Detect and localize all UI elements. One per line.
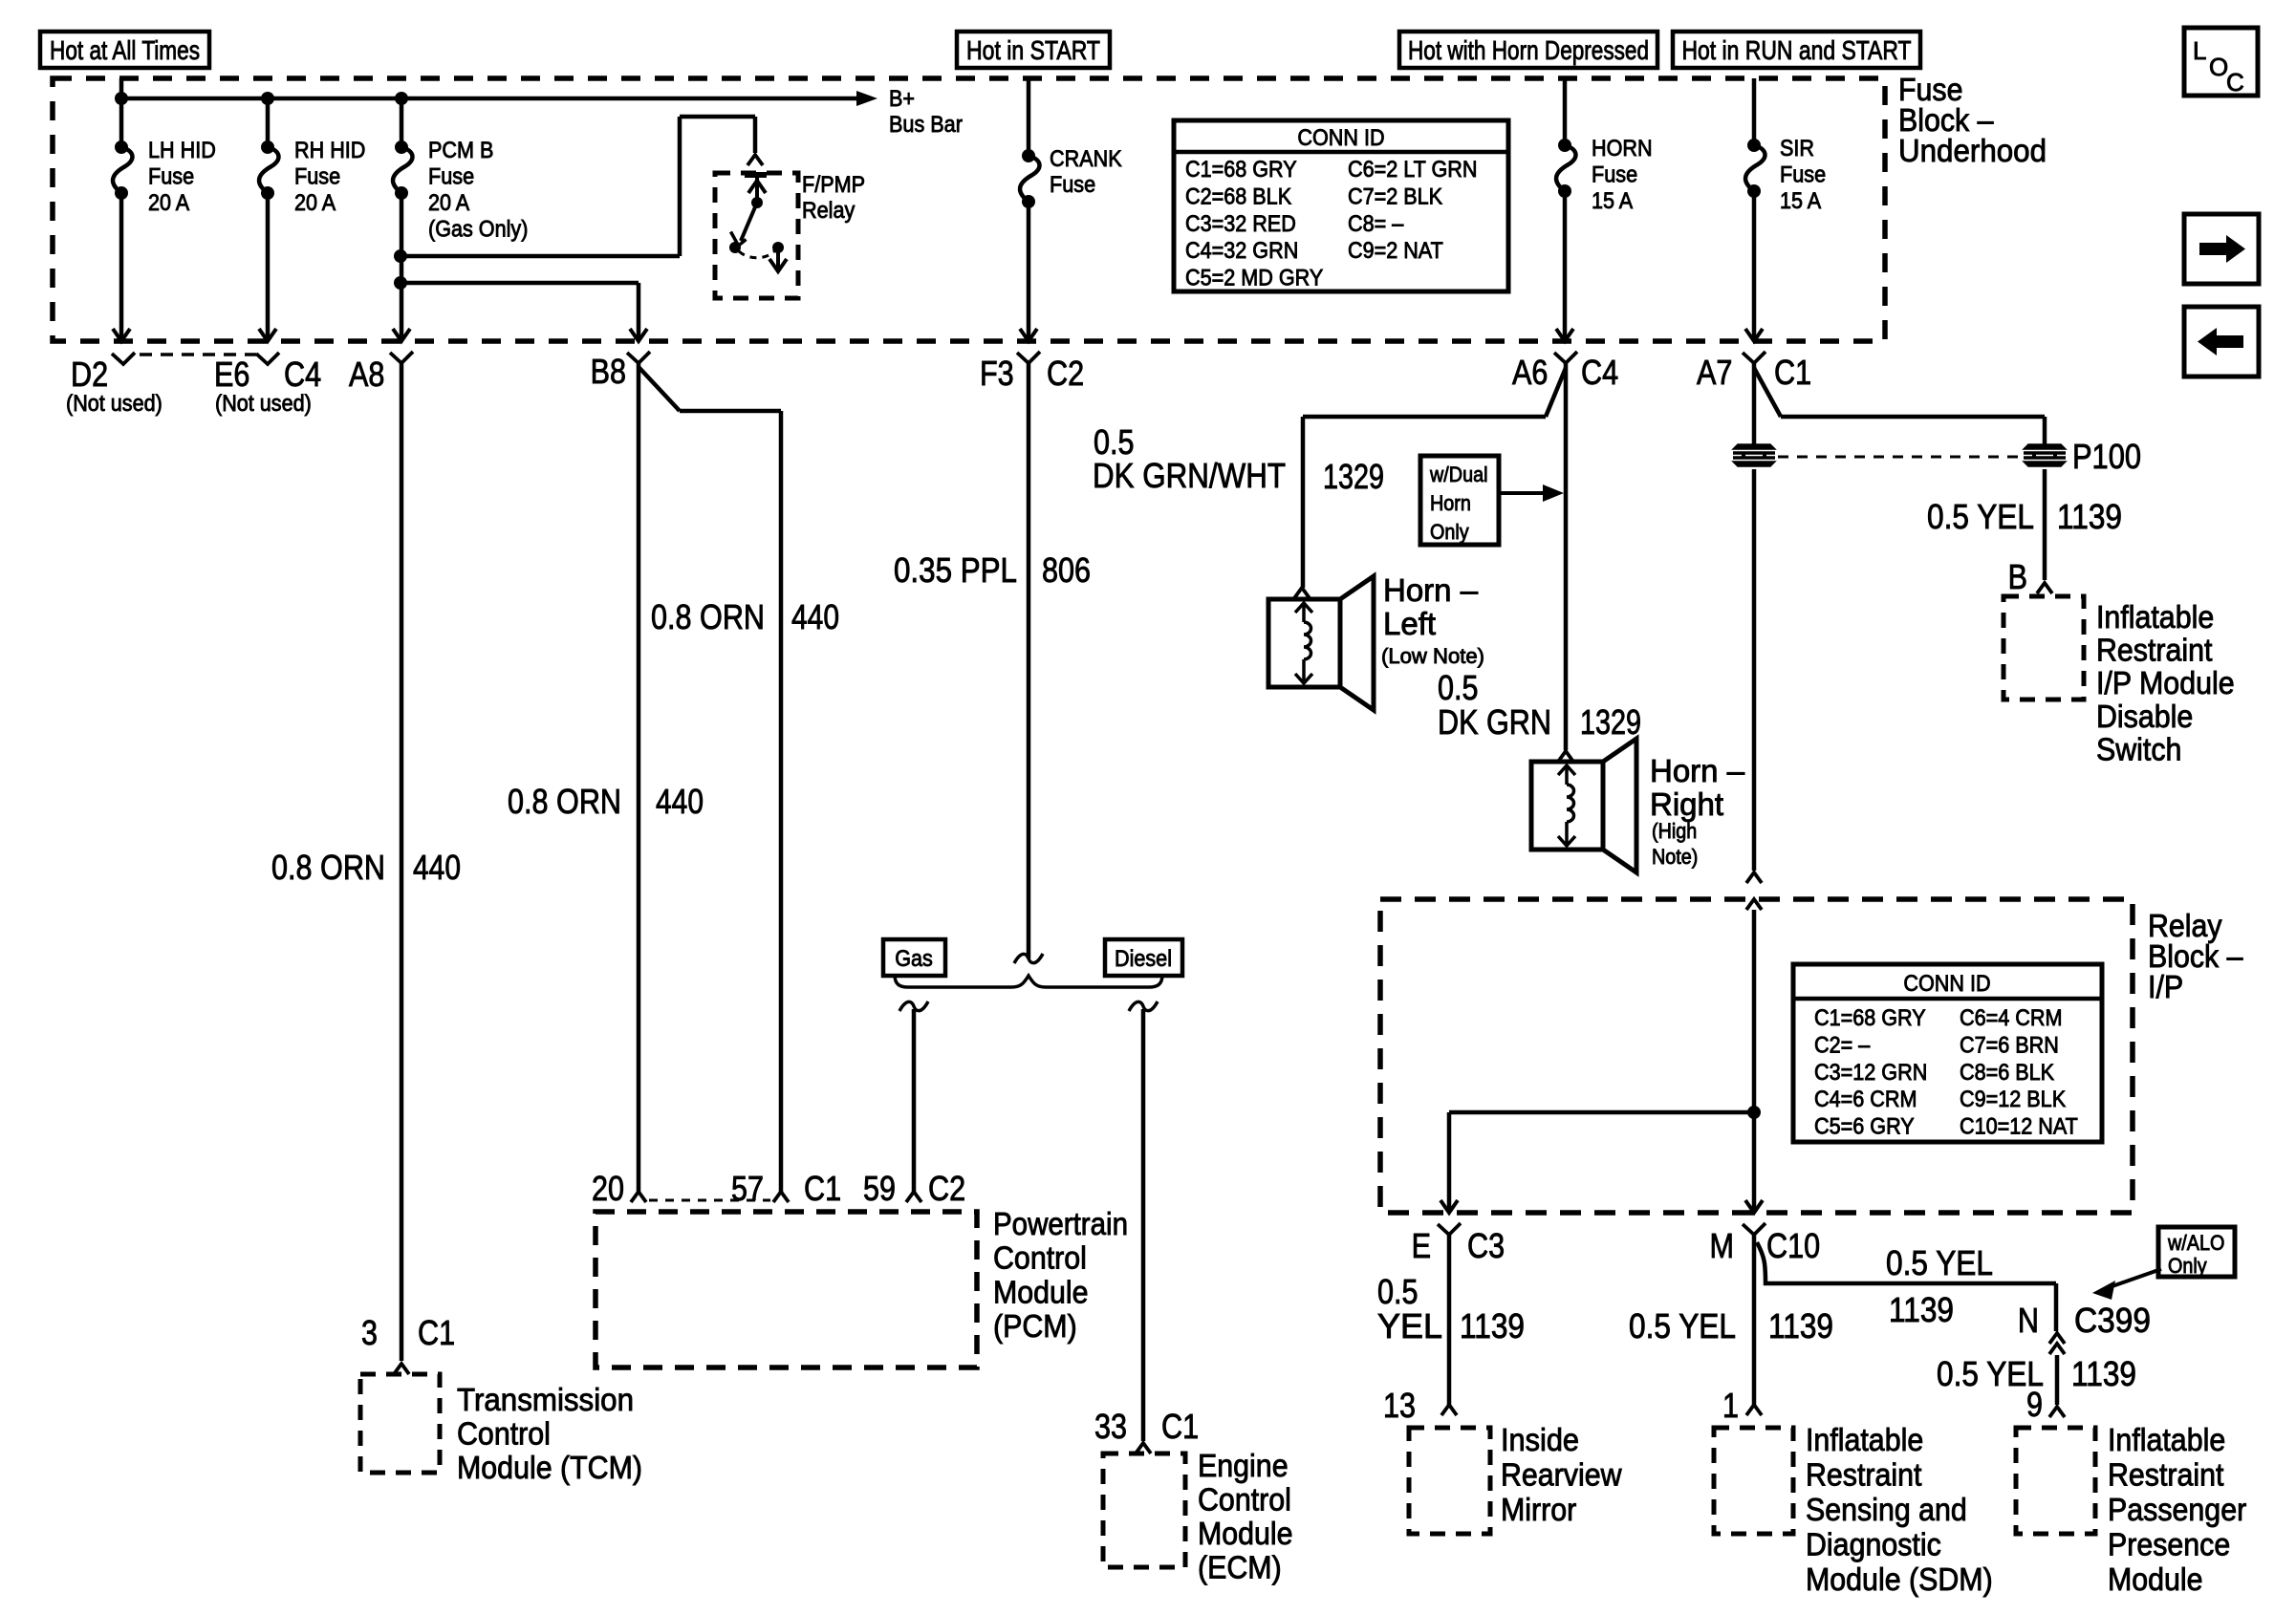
- svg-text:Fuse: Fuse: [1592, 162, 1637, 188]
- svg-text:Control: Control: [993, 1240, 1087, 1276]
- svg-text:Module: Module: [2108, 1561, 2203, 1597]
- svg-text:1139: 1139: [1889, 1290, 1954, 1329]
- svg-text:1139: 1139: [1460, 1306, 1525, 1346]
- svg-text:Relay: Relay: [802, 198, 855, 224]
- svg-text:Fuse: Fuse: [294, 164, 340, 190]
- svg-text:Fuse: Fuse: [148, 164, 194, 190]
- svg-text:Only: Only: [1430, 520, 1469, 544]
- svg-text:C9=12 BLK: C9=12 BLK: [1960, 1087, 2066, 1112]
- svg-text:C7=2 BLK: C7=2 BLK: [1348, 183, 1442, 209]
- svg-text:C1=68 GRY: C1=68 GRY: [1185, 157, 1297, 183]
- svg-text:C8= –: C8= –: [1348, 211, 1404, 237]
- svg-text:33: 33: [1094, 1407, 1127, 1446]
- svg-text:Fuse: Fuse: [428, 164, 474, 190]
- svg-text:C9=2 NAT: C9=2 NAT: [1348, 238, 1443, 264]
- svg-text:C2=68 BLK: C2=68 BLK: [1185, 183, 1291, 209]
- svg-text:Disable: Disable: [2096, 699, 2193, 734]
- svg-text:Passenger: Passenger: [2108, 1492, 2246, 1527]
- svg-text:w/ALO: w/ALO: [2167, 1231, 2224, 1255]
- svg-text:C399: C399: [2074, 1301, 2151, 1340]
- svg-text:C3=12 GRN: C3=12 GRN: [1814, 1060, 1927, 1086]
- svg-text:E: E: [1412, 1226, 1431, 1265]
- svg-text:Sensing and: Sensing and: [1806, 1492, 1967, 1527]
- svg-text:Module: Module: [1198, 1516, 1293, 1551]
- svg-text:Mirror: Mirror: [1501, 1492, 1576, 1527]
- svg-text:C4: C4: [1581, 353, 1618, 392]
- svg-text:(Not used): (Not used): [66, 391, 162, 417]
- svg-text:Left: Left: [1383, 606, 1436, 641]
- svg-text:CRANK: CRANK: [1050, 146, 1122, 172]
- svg-text:C1: C1: [418, 1313, 455, 1352]
- svg-text:0.5 YEL: 0.5 YEL: [1886, 1243, 1993, 1282]
- svg-text:13: 13: [1383, 1386, 1416, 1425]
- svg-text:Inflatable: Inflatable: [1806, 1422, 1923, 1457]
- svg-text:Engine: Engine: [1198, 1448, 1289, 1483]
- svg-text:Fuse: Fuse: [1050, 172, 1095, 198]
- svg-text:440: 440: [413, 848, 461, 887]
- svg-text:0.5 YEL: 0.5 YEL: [1629, 1306, 1736, 1346]
- svg-text:LH HID: LH HID: [148, 138, 216, 163]
- svg-text:C6=2 LT GRN: C6=2 LT GRN: [1348, 157, 1478, 183]
- svg-text:Inflatable: Inflatable: [2096, 599, 2214, 635]
- svg-text:C: C: [2226, 68, 2244, 97]
- svg-text:(High: (High: [1652, 819, 1697, 843]
- svg-text:F/PMP: F/PMP: [802, 172, 865, 198]
- svg-text:Powertrain: Powertrain: [993, 1206, 1128, 1241]
- svg-text:Horn –: Horn –: [1650, 753, 1745, 788]
- svg-text:Bus Bar: Bus Bar: [889, 112, 963, 138]
- svg-text:RH HID: RH HID: [294, 138, 365, 163]
- svg-text:B+: B+: [889, 86, 915, 112]
- svg-text:C2= –: C2= –: [1814, 1032, 1871, 1058]
- svg-text:C8=6 BLK: C8=6 BLK: [1960, 1060, 2054, 1086]
- svg-text:Gas: Gas: [895, 946, 933, 972]
- svg-text:1139: 1139: [1768, 1306, 1833, 1346]
- svg-text:HORN: HORN: [1592, 136, 1653, 161]
- svg-text:C5=6 GRY: C5=6 GRY: [1814, 1114, 1915, 1140]
- svg-text:C4=32 GRN: C4=32 GRN: [1185, 238, 1298, 264]
- svg-text:Horn: Horn: [1430, 491, 1471, 515]
- svg-text:Diesel: Diesel: [1115, 946, 1172, 972]
- svg-text:Restraint: Restraint: [2108, 1457, 2224, 1493]
- svg-text:M: M: [1710, 1226, 1735, 1265]
- svg-text:B8: B8: [591, 352, 626, 391]
- svg-text:Hot with Horn Depressed: Hot with Horn Depressed: [1408, 35, 1649, 65]
- svg-text:20: 20: [592, 1169, 624, 1208]
- svg-text:DK GRN/WHT: DK GRN/WHT: [1093, 456, 1286, 495]
- svg-text:Horn –: Horn –: [1383, 572, 1479, 608]
- svg-text:Hot in START: Hot in START: [966, 35, 1100, 65]
- svg-text:0.8 ORN: 0.8 ORN: [271, 848, 385, 887]
- svg-text:Note): Note): [1652, 845, 1698, 869]
- svg-text:Inside: Inside: [1501, 1422, 1579, 1457]
- svg-text:9: 9: [2026, 1385, 2043, 1424]
- svg-text:Only: Only: [2168, 1254, 2207, 1278]
- svg-text:C3: C3: [1467, 1226, 1505, 1265]
- svg-text:P100: P100: [2072, 437, 2141, 476]
- svg-text:C1: C1: [804, 1169, 841, 1208]
- svg-text:Module: Module: [993, 1274, 1089, 1309]
- svg-text:C1: C1: [1161, 1407, 1199, 1446]
- svg-text:I/P: I/P: [2148, 969, 2183, 1004]
- svg-text:Module (TCM): Module (TCM): [457, 1450, 642, 1485]
- svg-text:SIR: SIR: [1780, 136, 1814, 161]
- svg-text:806: 806: [1042, 550, 1091, 590]
- svg-text:Restraint: Restraint: [1806, 1457, 1922, 1493]
- svg-text:0.5: 0.5: [1377, 1272, 1419, 1311]
- svg-text:C1=68 GRY: C1=68 GRY: [1814, 1005, 1926, 1031]
- svg-text:57: 57: [731, 1169, 764, 1208]
- svg-text:CONN ID: CONN ID: [1903, 971, 1990, 997]
- svg-text:A6: A6: [1512, 353, 1548, 392]
- svg-text:20 A: 20 A: [294, 190, 336, 216]
- svg-text:C6=4 CRM: C6=4 CRM: [1960, 1005, 2063, 1031]
- svg-text:C1: C1: [1774, 353, 1811, 392]
- svg-text:C5=2 MD GRY: C5=2 MD GRY: [1185, 266, 1323, 291]
- svg-text:CONN ID: CONN ID: [1297, 125, 1384, 151]
- svg-text:(ECM): (ECM): [1198, 1550, 1282, 1585]
- svg-text:0.5 YEL: 0.5 YEL: [1927, 497, 2034, 536]
- svg-text:(PCM): (PCM): [993, 1308, 1077, 1344]
- svg-text:Control: Control: [1198, 1482, 1291, 1518]
- svg-text:Fuse: Fuse: [1780, 162, 1826, 188]
- svg-text:Restraint: Restraint: [2096, 633, 2213, 668]
- svg-text:Diagnostic: Diagnostic: [1806, 1527, 1941, 1562]
- svg-text:20 A: 20 A: [148, 190, 189, 216]
- svg-text:F3: F3: [980, 354, 1014, 393]
- svg-text:Control: Control: [457, 1416, 551, 1452]
- svg-text:1139: 1139: [2057, 497, 2122, 536]
- svg-text:w/Dual: w/Dual: [1429, 463, 1487, 486]
- svg-text:0.8 ORN: 0.8 ORN: [508, 782, 621, 821]
- svg-text:N: N: [2018, 1301, 2039, 1340]
- svg-text:15 A: 15 A: [1780, 188, 1821, 214]
- svg-text:1329: 1329: [1323, 457, 1384, 496]
- svg-text:D2: D2: [71, 355, 108, 394]
- svg-text:C4: C4: [284, 355, 321, 394]
- svg-text:Right: Right: [1650, 786, 1723, 822]
- svg-text:0.8 ORN: 0.8 ORN: [651, 597, 765, 636]
- svg-text:C2: C2: [928, 1169, 965, 1208]
- svg-text:I/P Module: I/P Module: [2096, 665, 2235, 700]
- svg-text:1329: 1329: [1580, 702, 1641, 742]
- svg-text:DK GRN: DK GRN: [1438, 702, 1551, 742]
- svg-text:20 A: 20 A: [428, 190, 469, 216]
- svg-text:3: 3: [361, 1313, 378, 1352]
- svg-text:C10=12 NAT: C10=12 NAT: [1960, 1114, 2078, 1140]
- svg-text:C3=32 RED: C3=32 RED: [1185, 211, 1296, 237]
- svg-text:Presence: Presence: [2108, 1527, 2230, 1562]
- svg-text:Underhood: Underhood: [1898, 133, 2047, 168]
- svg-text:Hot at All Times: Hot at All Times: [50, 35, 200, 65]
- svg-text:440: 440: [656, 782, 704, 821]
- svg-text:L: L: [2193, 36, 2206, 65]
- svg-text:C4=6 CRM: C4=6 CRM: [1814, 1087, 1917, 1112]
- svg-text:(Gas Only): (Gas Only): [428, 217, 528, 243]
- svg-text:YEL: YEL: [1377, 1306, 1442, 1346]
- svg-text:440: 440: [791, 597, 839, 636]
- svg-text:B: B: [2008, 557, 2027, 596]
- svg-text:15 A: 15 A: [1592, 188, 1633, 214]
- svg-text:E6: E6: [214, 355, 249, 394]
- svg-text:Module (SDM): Module (SDM): [1806, 1561, 1993, 1597]
- svg-text:Inflatable: Inflatable: [2108, 1422, 2225, 1457]
- svg-text:Transmission: Transmission: [457, 1382, 634, 1417]
- svg-text:0.35 PPL: 0.35 PPL: [894, 550, 1017, 590]
- svg-text:PCM B: PCM B: [428, 138, 493, 163]
- svg-text:59: 59: [863, 1169, 896, 1208]
- svg-text:(Low Note): (Low Note): [1381, 644, 1484, 668]
- svg-text:(Not used): (Not used): [215, 391, 312, 417]
- svg-text:C7=6 BRN: C7=6 BRN: [1960, 1032, 2059, 1058]
- svg-text:1139: 1139: [2071, 1354, 2136, 1393]
- svg-text:0.5: 0.5: [1438, 668, 1479, 707]
- svg-text:C2: C2: [1047, 354, 1084, 393]
- svg-text:Rearview: Rearview: [1501, 1457, 1622, 1493]
- svg-text:C10: C10: [1766, 1226, 1820, 1265]
- svg-text:1: 1: [1722, 1386, 1739, 1425]
- svg-text:A8: A8: [349, 355, 384, 394]
- svg-text:Hot in RUN and START: Hot in RUN and START: [1682, 35, 1912, 65]
- svg-text:A7: A7: [1697, 353, 1732, 392]
- svg-text:Switch: Switch: [2096, 731, 2181, 766]
